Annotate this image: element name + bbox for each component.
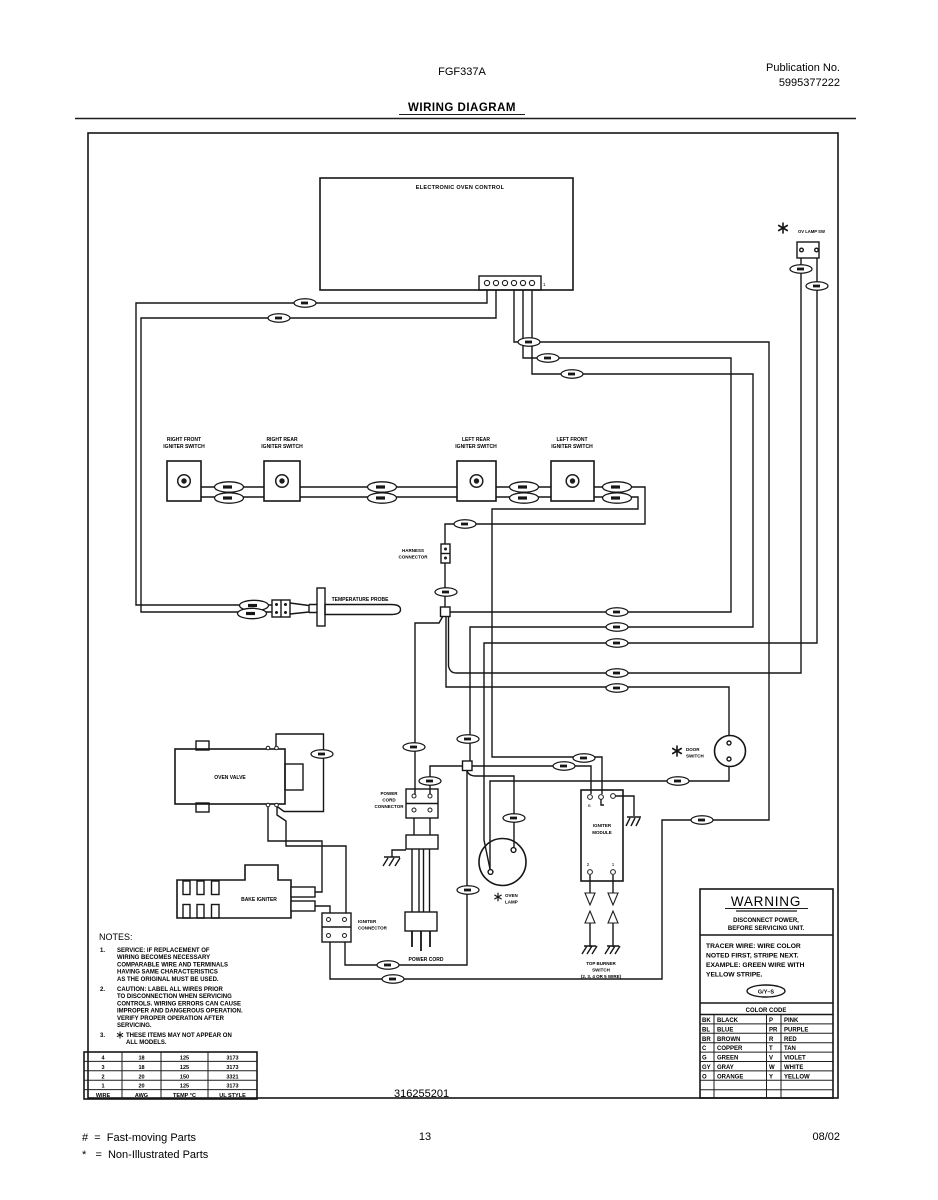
svg-text:# = Fast-moving Parts: # = Fast-moving Parts bbox=[82, 1132, 197, 1144]
svg-text:RED: RED bbox=[784, 1037, 797, 1043]
svg-text:WHITE: WHITE bbox=[784, 1065, 803, 1071]
svg-text:V: V bbox=[769, 1056, 773, 1062]
svg-text:IGNITER: IGNITER bbox=[593, 823, 612, 828]
svg-text:18: 18 bbox=[138, 1065, 144, 1071]
svg-text:150: 150 bbox=[180, 1074, 189, 1080]
svg-text:* = Non-Illustrated Parts: * = Non-Illustrated Parts bbox=[82, 1149, 209, 1161]
svg-text:20: 20 bbox=[138, 1074, 144, 1080]
svg-text:BK: BK bbox=[702, 1018, 711, 1024]
svg-text:POWER: POWER bbox=[380, 791, 398, 796]
svg-text:WIRE: WIRE bbox=[96, 1093, 111, 1099]
svg-text:LEFT FRONT: LEFT FRONT bbox=[556, 437, 587, 443]
svg-text:R: R bbox=[769, 1037, 774, 1043]
svg-text:TOP BURNER: TOP BURNER bbox=[586, 961, 616, 966]
svg-text:WIRING DIAGRAM: WIRING DIAGRAM bbox=[408, 102, 516, 114]
svg-text:HARNESS: HARNESS bbox=[402, 548, 424, 553]
svg-text:Publication No.: Publication No. bbox=[766, 62, 840, 74]
svg-text:EXAMPLE: GREEN WIRE WITH: EXAMPLE: GREEN WIRE WITH bbox=[706, 962, 805, 969]
svg-text:POWER CORD: POWER CORD bbox=[409, 957, 444, 963]
svg-text:BLACK: BLACK bbox=[717, 1018, 739, 1024]
svg-text:RIGHT REAR: RIGHT REAR bbox=[266, 437, 298, 443]
svg-text:BROWN: BROWN bbox=[717, 1037, 740, 1043]
svg-text:C: C bbox=[702, 1046, 707, 1052]
svg-text:CONNECTOR: CONNECTOR bbox=[358, 926, 388, 931]
svg-text:COLOR CODE: COLOR CODE bbox=[746, 1008, 787, 1014]
svg-text:PR: PR bbox=[769, 1027, 778, 1033]
svg-text:IGNITER SWITCH: IGNITER SWITCH bbox=[455, 444, 497, 450]
svg-text:13: 13 bbox=[419, 1131, 431, 1143]
svg-text:5995377222: 5995377222 bbox=[779, 77, 840, 89]
svg-text:GY: GY bbox=[702, 1065, 711, 1071]
svg-text:BAKE IGNITER: BAKE IGNITER bbox=[241, 897, 277, 903]
svg-text:125: 125 bbox=[180, 1065, 189, 1071]
svg-text:GRAY: GRAY bbox=[717, 1065, 734, 1071]
svg-text:OVEN VALVE: OVEN VALVE bbox=[214, 775, 246, 781]
svg-text:TO DISCONNECTION WHEN SERVI: TO DISCONNECTION WHEN SERVICING bbox=[117, 994, 232, 1000]
svg-text:3173: 3173 bbox=[226, 1056, 238, 1062]
svg-text:125: 125 bbox=[180, 1056, 189, 1062]
svg-text:SERVICE: IF REPLACEMENT O: SERVICE: IF REPLACEMENT OF bbox=[117, 948, 210, 954]
svg-text:TEMPERATURE PROBE: TEMPERATURE PROBE bbox=[332, 597, 390, 603]
svg-text:BL: BL bbox=[702, 1027, 710, 1033]
svg-text:BEFORE SERVICING UNIT.: BEFORE SERVICING UNIT. bbox=[728, 926, 805, 932]
svg-text:ORANGE: ORANGE bbox=[717, 1074, 743, 1080]
svg-text:G: G bbox=[702, 1056, 707, 1062]
svg-text:(2, 3, 4 OR 5 WIRE): (2, 3, 4 OR 5 WIRE) bbox=[581, 974, 622, 979]
svg-text:WARNING: WARNING bbox=[731, 894, 801, 909]
svg-text:20: 20 bbox=[138, 1084, 144, 1090]
svg-text:IMPROPER AND DANGEROUS OPER: IMPROPER AND DANGEROUS OPERATION. bbox=[117, 1009, 243, 1015]
svg-text:08/02: 08/02 bbox=[812, 1131, 840, 1143]
svg-text:3173: 3173 bbox=[226, 1084, 238, 1090]
svg-text:DOOR: DOOR bbox=[686, 747, 700, 752]
svg-text:O: O bbox=[702, 1074, 707, 1080]
svg-text:125: 125 bbox=[180, 1084, 189, 1090]
svg-text:T: T bbox=[769, 1046, 773, 1052]
svg-text:B: B bbox=[588, 803, 591, 808]
svg-text:YELLOW: YELLOW bbox=[784, 1074, 810, 1080]
svg-text:3.: 3. bbox=[100, 1033, 105, 1039]
svg-text:HAVING SAME CHARACTERISTICS: HAVING SAME CHARACTERISTICS bbox=[117, 970, 218, 976]
svg-text:TAN: TAN bbox=[784, 1046, 796, 1052]
svg-text:CONTROLS. WIRING ERRORS CA: CONTROLS. WIRING ERRORS CAN CAUSE bbox=[117, 1001, 241, 1007]
svg-text:ELECTRONIC OVEN CONTROL: ELECTRONIC OVEN CONTROL bbox=[416, 185, 505, 191]
svg-text:YELLOW STRIPE.: YELLOW STRIPE. bbox=[706, 972, 763, 979]
svg-text:CONNECTOR: CONNECTOR bbox=[375, 804, 405, 809]
svg-text:ALL MODELS.: ALL MODELS. bbox=[126, 1040, 167, 1046]
svg-text:1: 1 bbox=[101, 1084, 104, 1090]
svg-text:WIRING BECOMES NECESSARY: WIRING BECOMES NECESSARY bbox=[117, 955, 210, 961]
svg-text:P: P bbox=[769, 1018, 773, 1024]
svg-text:OV LAMP SW: OV LAMP SW bbox=[798, 229, 825, 234]
svg-text:COPPER: COPPER bbox=[717, 1046, 743, 1052]
svg-text:CONNECTOR: CONNECTOR bbox=[399, 555, 429, 560]
svg-text:TRACER WIRE: WIRE COLOR: TRACER WIRE: WIRE COLOR bbox=[706, 943, 801, 950]
svg-text:IGNITER SWITCH: IGNITER SWITCH bbox=[261, 444, 303, 450]
svg-text:TEMP °C: TEMP °C bbox=[173, 1093, 196, 1099]
svg-text:VERIFY PROPER OPERATION AFT: VERIFY PROPER OPERATION AFTER bbox=[117, 1016, 225, 1022]
svg-text:MODULE: MODULE bbox=[592, 830, 612, 835]
svg-text:VIOLET: VIOLET bbox=[784, 1056, 806, 1062]
svg-text:LEFT REAR: LEFT REAR bbox=[462, 437, 490, 443]
svg-text:2.: 2. bbox=[100, 987, 105, 993]
svg-text:SWITCH: SWITCH bbox=[592, 968, 610, 973]
svg-text:G/Y–S: G/Y–S bbox=[758, 990, 775, 996]
svg-text:AWG: AWG bbox=[135, 1093, 148, 1099]
svg-text:CORD: CORD bbox=[382, 798, 396, 803]
svg-text:NOTES:: NOTES: bbox=[99, 932, 133, 942]
svg-text:COMPARABLE WIRE AND TERMINA: COMPARABLE WIRE AND TERMINALS bbox=[117, 962, 228, 968]
svg-text:DISCONNECT POWER,: DISCONNECT POWER, bbox=[733, 918, 799, 924]
svg-text:UL STYLE: UL STYLE bbox=[219, 1093, 246, 1099]
svg-text:RIGHT FRONT: RIGHT FRONT bbox=[167, 437, 201, 443]
svg-text:Y: Y bbox=[769, 1074, 773, 1080]
svg-text:CAUTION: LABEL ALL WIRES: CAUTION: LABEL ALL WIRES PRIOR bbox=[117, 987, 224, 993]
svg-text:SERVICING.: SERVICING. bbox=[117, 1023, 152, 1029]
svg-text:BLUE: BLUE bbox=[717, 1027, 733, 1033]
svg-text:3: 3 bbox=[101, 1065, 104, 1071]
svg-text:IGNITER SWITCH: IGNITER SWITCH bbox=[163, 444, 205, 450]
svg-text:FGF337A: FGF337A bbox=[438, 66, 486, 78]
svg-text:3173: 3173 bbox=[226, 1065, 238, 1071]
svg-text:PURPLE: PURPLE bbox=[784, 1027, 808, 1033]
svg-text:OVEN: OVEN bbox=[505, 893, 518, 898]
svg-text:AS THE ORIGINAL MUST BE U: AS THE ORIGINAL MUST BE USED. bbox=[117, 977, 219, 983]
svg-text:SWITCH: SWITCH bbox=[686, 754, 704, 759]
svg-text:W: W bbox=[769, 1065, 775, 1071]
svg-text:316255201: 316255201 bbox=[394, 1088, 449, 1100]
svg-text:18: 18 bbox=[138, 1056, 144, 1062]
svg-text:GREEN: GREEN bbox=[717, 1056, 738, 1062]
svg-text:PINK: PINK bbox=[784, 1018, 799, 1024]
svg-text:BR: BR bbox=[702, 1037, 711, 1043]
svg-text:3321: 3321 bbox=[226, 1074, 238, 1080]
svg-text:1.: 1. bbox=[100, 948, 105, 954]
svg-text:IGNITER: IGNITER bbox=[358, 919, 377, 924]
svg-text:NOTED FIRST, STRIPE NEXT.: NOTED FIRST, STRIPE NEXT. bbox=[706, 953, 799, 960]
svg-text:LAMP: LAMP bbox=[505, 900, 518, 905]
svg-text:THESE ITEMS MAY NOT APPEAR: THESE ITEMS MAY NOT APPEAR ON bbox=[126, 1033, 232, 1039]
svg-text:2: 2 bbox=[101, 1074, 104, 1080]
svg-text:IGNITER SWITCH: IGNITER SWITCH bbox=[551, 444, 593, 450]
